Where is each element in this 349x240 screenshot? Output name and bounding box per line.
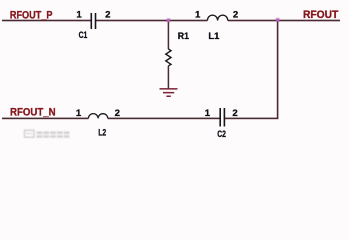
ground [160, 88, 178, 97]
watermark [25, 130, 70, 138]
pin 2 of C2 [232, 108, 237, 119]
wire R1 branch vertical (node to resistor top) [168, 21, 170, 50]
svg-text:1: 1 [205, 108, 211, 119]
wire top net: L1 to RFOUT underline end [228, 20, 340, 22]
label C2 [217, 129, 226, 140]
svg-text:R1: R1 [178, 31, 190, 42]
pin 2 of L2 [115, 108, 120, 119]
pin 1 of L2 [76, 108, 82, 119]
wire bottom net: RFOUT_N underline to L2 [2, 118, 88, 120]
capacitor C1 plates [91, 13, 97, 29]
wire top net: C1 right plate to L1 [96, 20, 208, 22]
pin 2 of L1 [233, 9, 238, 20]
inductor L1 humps [207, 15, 227, 20]
pin 1 of L1 [195, 9, 201, 20]
label C1 [79, 30, 88, 41]
wire resistor bottom to ground [168, 66, 170, 89]
svg-text:RFOUT_P: RFOUT_P [10, 9, 53, 21]
capacitor C2 plates [219, 108, 225, 127]
wire top net: RFOUT_P underline to C1 left plate [2, 20, 91, 22]
svg-text:C1: C1 [79, 30, 88, 41]
node A junction (top left, to R1) [167, 19, 171, 23]
port RFOUT_P [10, 9, 53, 21]
svg-text:L1: L1 [208, 31, 220, 42]
svg-text:1: 1 [76, 108, 82, 119]
inductor L2 humps [88, 114, 107, 119]
resistor R1 zigzag [166, 49, 171, 66]
svg-text:2: 2 [115, 108, 120, 119]
port RFOUT_N [10, 106, 56, 118]
pin 1 of C2 [205, 108, 211, 119]
svg-text:C2: C2 [217, 129, 226, 140]
svg-text:1: 1 [195, 9, 201, 20]
svg-text:RFOUT: RFOUT [303, 9, 339, 21]
pin 1 of C1 [76, 9, 82, 20]
label L2 [98, 127, 106, 138]
label R1 [178, 31, 190, 42]
svg-text:2: 2 [233, 9, 238, 20]
svg-text:2: 2 [232, 108, 237, 119]
port RFOUT [303, 9, 339, 21]
svg-text:2: 2 [105, 9, 110, 20]
svg-text:RFOUT_N: RFOUT_N [10, 106, 56, 118]
node B junction (top right, to bottom net) [276, 18, 280, 22]
label L1 [208, 31, 220, 42]
svg-text:1: 1 [76, 9, 82, 20]
svg-text:L2: L2 [98, 127, 106, 138]
wire bottom net: C2 right plate to right branch corner [225, 118, 279, 120]
wire right branch vertical (node to bottom net) [277, 21, 279, 119]
pin 2 of C1 [105, 9, 110, 20]
wire bottom net: L2 to C2 left plate [108, 118, 220, 120]
